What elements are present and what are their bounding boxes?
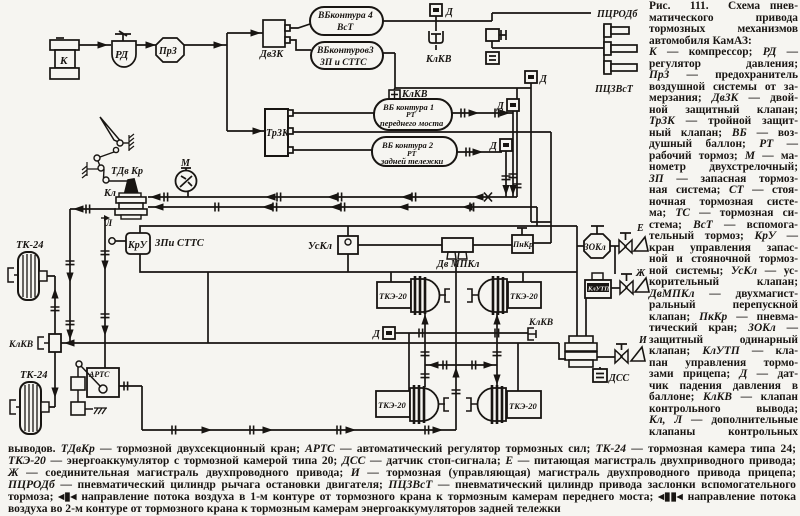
branch to row2 left box — [408, 333, 410, 391]
control output valve KlKV right — [528, 318, 553, 340]
wire chamber to KlKV — [47, 276, 60, 334]
corner wire x517 down — [513, 88, 522, 197]
control output valve KlKV left — [8, 334, 61, 352]
wire DvZK to tank VB3 — [290, 40, 311, 50]
rear feed wire y430 — [142, 426, 456, 435]
svg-text:РД: РД — [115, 49, 129, 61]
wire D down to PnKr branch — [531, 83, 551, 243]
label Kl — [103, 188, 116, 199]
svg-text:Д: Д — [372, 329, 381, 340]
svg-text:Дв МПКл: Дв МПКл — [436, 259, 479, 270]
svg-text:Д: Д — [539, 74, 548, 85]
svg-text:КлКВ: КлКВ — [528, 318, 553, 328]
wire ZOKl to KlUTP — [614, 246, 616, 274]
wire VB2 to sensor D — [457, 148, 502, 157]
svg-text:Д: Д — [445, 7, 454, 18]
svg-text:УсКл: УсКл — [308, 241, 333, 252]
cylinder bracket — [603, 25, 605, 73]
svg-text:ЗПи СТТС: ЗПи СТТС — [154, 238, 205, 249]
svg-text:Д: Д — [489, 141, 498, 152]
energy accumulator TKE-20 row2 left — [376, 385, 449, 424]
brake force regulator ARTC — [76, 361, 119, 397]
branch to row2 right box — [517, 343, 519, 391]
label ZPi STTS — [154, 238, 205, 249]
pneumatic cylinder piston 2 — [604, 42, 637, 55]
svg-text:Ж: Ж — [635, 268, 646, 279]
shutoff unit H-box — [486, 29, 506, 41]
pneumatic tap PnKr — [512, 228, 533, 253]
pneumatic cylinder piston 3 — [604, 61, 637, 74]
pneumatic cylinder piston 1 — [604, 24, 629, 37]
wire D contour1 down — [509, 113, 518, 197]
pedal linkage — [94, 147, 134, 183]
ARTC ground mount — [94, 408, 107, 414]
triple protection valve TrZK — [265, 109, 293, 156]
brake pedal — [100, 117, 129, 146]
svg-text:ПнКр: ПнКр — [512, 240, 533, 249]
air tank VB2 (contour 2 rear bogie) — [372, 137, 457, 166]
wire TrZK to VB1 — [293, 112, 374, 114]
label PTsRODb — [596, 9, 638, 20]
wire PrZ to corner node — [184, 41, 227, 48]
wire VB4 to PC cylinders — [383, 13, 591, 21]
sensor D at x531 — [525, 71, 548, 85]
label PTsZVsT — [594, 84, 634, 95]
wire DvMPKl to PnKr — [473, 244, 512, 246]
long brake wire y343 — [61, 339, 566, 359]
wire K to RD — [79, 41, 111, 48]
accelerating valve UsKl — [308, 226, 358, 272]
wire KlKV to lower chamber — [49, 352, 59, 407]
riser left pair x425 — [421, 312, 430, 387]
air tank VB1 (contour 1 front axle) — [374, 99, 452, 130]
svg-text:ПЦЗВсТ: ПЦЗВсТ — [594, 84, 634, 95]
sensor D on contour 1 — [496, 99, 519, 113]
brake valve TDvKr body — [115, 193, 147, 219]
linkage wall mount — [82, 162, 98, 178]
brake line stub left of valve — [70, 205, 116, 214]
left vertical feed x70 — [66, 209, 75, 343]
stop signal sensor DSS — [593, 367, 630, 384]
wire to PCZVsT — [492, 41, 605, 48]
wire RD to PrZ — [136, 41, 158, 48]
wire PnKr right — [533, 242, 551, 244]
wire feed to TrZK — [227, 127, 265, 134]
extra control valve L — [101, 215, 113, 228]
svg-text:И: И — [638, 335, 648, 346]
svg-text:ВсТ: ВсТ — [336, 23, 355, 33]
svg-text:КлКВ: КлКВ — [425, 54, 452, 65]
svg-text:ТДв Кр: ТДв Кр — [111, 166, 143, 177]
control output valve KlKV (top) — [425, 31, 452, 65]
svg-text:Л: Л — [105, 218, 113, 228]
wire row1 boxes to supply y272 — [391, 272, 523, 282]
svg-text:ДвЗК: ДвЗК — [259, 49, 284, 60]
svg-text:ТКЭ-20: ТКЭ-20 — [379, 291, 407, 301]
svg-text:К: К — [59, 55, 68, 67]
antifreeze unit PrZ (octagon) — [156, 38, 184, 62]
valve to Zh — [611, 274, 633, 294]
svg-text:ТКЭ-20: ТКЭ-20 — [378, 400, 406, 410]
cross link wire y365 — [425, 361, 497, 370]
brake chamber TK-24 lower — [10, 382, 49, 434]
wire D contour2 down — [502, 152, 511, 197]
wire D to KlKV right — [395, 329, 528, 338]
energy accumulator TKE-20 row2 right — [466, 385, 541, 424]
svg-text:Кл: Кл — [103, 188, 116, 199]
brake line 1 y197 — [148, 193, 517, 202]
trailer brake control valve KlUTP — [585, 273, 611, 298]
energy accumulator TKE-20 row1 right — [467, 276, 541, 315]
control valve KlKV on VB1 — [389, 88, 428, 100]
svg-text:ВБконтуров3: ВБконтуров3 — [316, 46, 374, 56]
svg-text:ТКЭ-20: ТКЭ-20 — [509, 401, 537, 411]
label TK-24 upper — [16, 240, 44, 251]
svg-text:М: М — [180, 158, 191, 169]
corner wire x577 — [576, 226, 578, 336]
control line flag I — [631, 335, 648, 361]
vertical feed wire x227 — [226, 33, 228, 131]
svg-text:ЗОКл: ЗОКл — [583, 242, 606, 252]
valve to I — [597, 344, 628, 363]
bleed box (equals symbol) — [486, 52, 499, 64]
sensor D on contour 2 — [489, 139, 512, 152]
pedal wall mount — [129, 134, 134, 151]
svg-text:КлУТП: КлУТП — [587, 286, 610, 293]
svg-text:ЗП и СТТС: ЗП и СТТС — [319, 58, 367, 68]
wire KlUTP down — [585, 298, 587, 337]
ARTC linkage boxes — [71, 367, 93, 415]
wire TrZK middle outlet long run to PnKr — [293, 132, 551, 222]
wire DvZK to tank VB4 — [290, 24, 310, 28]
wire UsKl to DvMPKl — [358, 244, 442, 246]
svg-text:переднего моста: переднего моста — [380, 118, 444, 128]
svg-text:ПЦРОДб: ПЦРОДб — [596, 9, 638, 20]
wire ZP supply y88 — [395, 87, 531, 89]
svg-text:КлКВ: КлКВ — [8, 340, 33, 350]
svg-text:ТК-24: ТК-24 — [20, 370, 48, 381]
wire VB3 output down — [383, 53, 395, 88]
svg-text:Д: Д — [496, 101, 505, 112]
riser right pair x497 — [493, 312, 502, 387]
single protection valve ZOKl — [577, 226, 610, 258]
wire TrZK to VB2 — [293, 149, 372, 151]
supply line flag E — [634, 223, 648, 251]
wire to DvZK — [227, 29, 263, 36]
brake valve lever — [124, 179, 138, 196]
KrU loop top wire y226 — [140, 226, 577, 233]
svg-text:ТрЗК: ТрЗК — [266, 128, 290, 139]
label TK-24 lower — [20, 370, 48, 381]
sensor D rear contour — [372, 327, 395, 340]
branch wire x208 — [207, 272, 209, 343]
coupling heads stack — [565, 336, 597, 367]
svg-text:задней тележки: задней тележки — [380, 156, 444, 166]
compressor K — [50, 38, 79, 79]
wire ARTC to rear line — [119, 382, 142, 431]
two-line bypass valve DvMPKl — [436, 238, 479, 270]
svg-text:ТК-24: ТК-24 — [16, 240, 44, 251]
pressure drop sensor D (top) — [430, 4, 454, 31]
label TDvKr — [111, 166, 143, 177]
brake chamber TK-24 upper — [8, 252, 47, 300]
energy accumulator TKE-20 row1 left — [377, 276, 450, 315]
brake line 2 y207 — [148, 203, 537, 227]
manometer M — [176, 158, 197, 197]
svg-text:ПрЗ: ПрЗ — [158, 46, 177, 57]
wire VB1 to sensor D — [452, 109, 513, 118]
svg-text:Е: Е — [636, 223, 644, 234]
air tank VB3 (contours 3 ZP and STTS) — [311, 42, 383, 69]
svg-text:ВБконтура 4: ВБконтура 4 — [317, 11, 373, 21]
svg-text:КрУ: КрУ — [127, 240, 148, 251]
left vertical feed x105 to ARTC — [101, 219, 110, 368]
double protection valve DvZK — [259, 20, 290, 60]
KrU loop bottom wire y272 — [140, 254, 577, 272]
connecting line flag Zh — [635, 268, 649, 292]
pressure regulator RD — [112, 31, 136, 67]
air tank VB4 (contour 4 VsT) — [310, 7, 383, 35]
riser to spring chambers x456 — [452, 259, 461, 430]
svg-text:ТКЭ-20: ТКЭ-20 — [510, 291, 538, 301]
feed valve to E — [610, 233, 632, 253]
svg-text:ДСС: ДСС — [608, 373, 630, 384]
hand brake valve KrU — [109, 233, 150, 254]
